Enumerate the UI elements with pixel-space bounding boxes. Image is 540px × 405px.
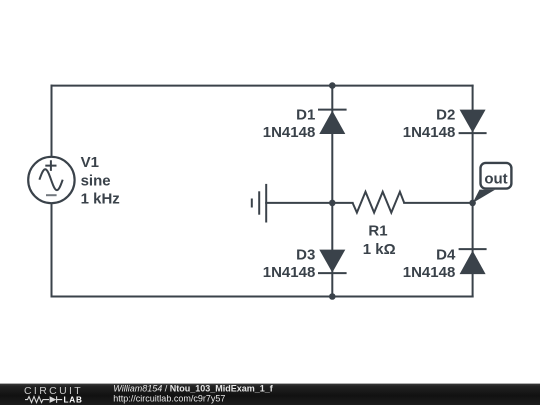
svg-text:1N4148: 1N4148	[403, 264, 456, 281]
svg-text:1N4148: 1N4148	[403, 124, 456, 141]
svg-text:D1: D1	[296, 106, 315, 123]
wire right branch	[472, 86, 474, 297]
logo resistor glyph	[25, 397, 49, 403]
svg-text:William8154 / Ntou_103_MidExam: William8154 / Ntou_103_MidExam_1_f	[113, 384, 273, 394]
wire left branch lower segment	[51, 203, 53, 296]
svg-text:D2: D2	[436, 106, 455, 123]
footer bar	[0, 384, 540, 405]
ground long bar	[265, 184, 267, 223]
logo diode glyph	[50, 396, 63, 403]
svg-text:1N4148: 1N4148	[263, 264, 316, 281]
wire bottom net	[52, 296, 473, 298]
wire top net	[52, 85, 473, 87]
wire middle branch	[331, 86, 333, 297]
diode D3	[318, 250, 347, 274]
ground short bar	[251, 199, 253, 208]
voltage source V1	[28, 157, 74, 203]
resistor R1	[353, 192, 405, 213]
svg-text:1 kΩ: 1 kΩ	[363, 241, 396, 258]
diode D1	[318, 110, 347, 134]
diode D2	[459, 110, 487, 134]
node out flag	[473, 163, 512, 203]
svg-text:D3: D3	[296, 246, 315, 263]
svg-text:out: out	[484, 171, 507, 188]
svg-text:D4: D4	[436, 246, 456, 263]
svg-text:V1: V1	[81, 154, 99, 171]
wire ground to middle node	[266, 202, 352, 204]
junction bottom node	[329, 293, 336, 300]
diode D4	[459, 249, 487, 274]
junction top node	[329, 82, 336, 89]
svg-text:1 kHz: 1 kHz	[81, 191, 120, 208]
junction out node	[469, 200, 476, 207]
ground middle bar	[258, 191, 260, 214]
wire resistor to out node	[404, 202, 472, 204]
svg-text:LAB: LAB	[64, 395, 83, 404]
wire left branch upper segment	[51, 86, 53, 157]
svg-text:sine: sine	[81, 172, 111, 189]
svg-text:http://circuitlab.com/c9r7y57: http://circuitlab.com/c9r7y57	[113, 393, 225, 403]
junction middle node	[329, 200, 336, 207]
svg-text:1N4148: 1N4148	[263, 124, 316, 141]
svg-text:R1: R1	[368, 223, 387, 240]
